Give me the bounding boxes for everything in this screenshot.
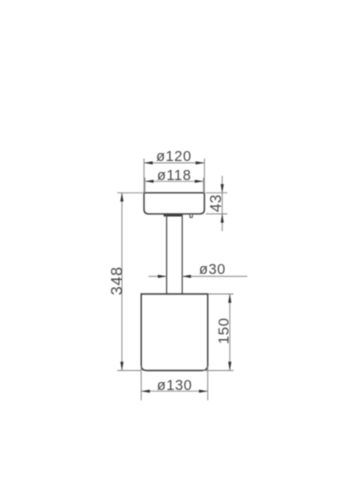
dimension ø30 line right segment: [182, 275, 247, 277]
svg-text:ø120: ø120: [156, 149, 191, 165]
dimension ø120 extension line left: [143, 159, 145, 193]
dimension ø130 extension line left: [140, 366, 142, 400]
stem collar joint: [164, 214, 183, 216]
dimension ø120 extension line right: [203, 159, 205, 193]
dimension 150 line: [229, 294, 231, 371]
dimension ø118 extension line left: [144, 178, 146, 193]
dimension ø120 arrow left: [144, 161, 153, 164]
dimension 43 extension line top: [206, 192, 228, 194]
stem (pole, ø30) right wire: [181, 214, 183, 294]
dimension 348 extension line top: [117, 192, 144, 194]
push button detail: [190, 214, 192, 218]
dimension ø130 arrow left: [141, 390, 150, 393]
dimension ø120 arrow right: [196, 161, 205, 164]
dimension ø130 extension line right: [207, 366, 209, 400]
dimension ø30 arrow left: [158, 275, 167, 278]
dimension ø120 label: [156, 149, 191, 165]
lamp body (base, ø130): [141, 294, 208, 371]
dimension ø30 arrow right: [182, 275, 191, 278]
svg-text:ø30: ø30: [199, 262, 226, 278]
dimension ø130 label: [157, 378, 192, 394]
dimension 150 extension line bottom: [203, 370, 234, 372]
dimension 348 label: [109, 266, 126, 295]
dimension ø118 extension line right: [203, 178, 205, 193]
dimension ø130 arrow right: [199, 390, 208, 393]
dimension 348 extension line bottom: [117, 370, 141, 372]
stem (pole, ø30) left wire: [166, 214, 168, 294]
dimension 43 extension line bottom: [206, 213, 228, 215]
lamp head (shade, ø120): [144, 193, 204, 214]
dimension 43 line: [221, 176, 223, 231]
dimension ø118 line: [145, 180, 204, 182]
dimension 150 extension line top: [208, 293, 233, 295]
svg-text:43: 43: [208, 194, 225, 212]
dimension ø118 arrow left: [145, 180, 154, 183]
dimension ø120 line: [144, 162, 204, 164]
dimension ø130 line: [141, 390, 208, 392]
dimension ø30 label: [199, 262, 226, 278]
dimension 43 arrow top: [221, 184, 224, 193]
dimension 150 label: [216, 317, 233, 344]
dimension 150 arrow bottom: [228, 362, 231, 371]
svg-text:ø118: ø118: [157, 168, 191, 184]
svg-text:ø130: ø130: [157, 378, 192, 394]
dimension 348 arrow bottom: [120, 362, 123, 371]
dimension ø118 label: [157, 168, 191, 184]
svg-text:150: 150: [216, 317, 233, 344]
svg-text:348: 348: [109, 266, 126, 295]
dimension 43 arrow bottom: [221, 214, 224, 223]
dimension 43 label: [208, 194, 225, 212]
dimension ø118 arrow right: [195, 180, 204, 183]
dimension 348 line: [121, 193, 123, 371]
dimension 348 arrow top: [120, 193, 123, 202]
dimension 150 arrow top: [228, 294, 231, 303]
dimension ø30 line left segment: [149, 275, 167, 277]
